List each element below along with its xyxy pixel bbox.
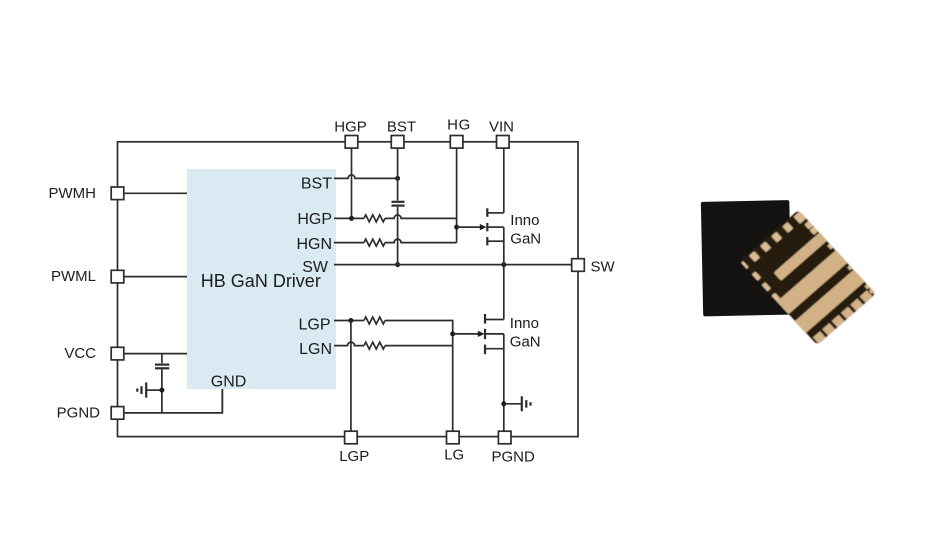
node junction dot LS gate: [450, 331, 455, 336]
wire HGP resistor to HG node (hop over BST cap): [385, 215, 457, 218]
svg-text:VIN: VIN: [489, 119, 514, 136]
outer board frame wire: [118, 142, 579, 437]
wire GND pin of driver: [221, 389, 223, 413]
svg-text:PGND: PGND: [57, 404, 101, 421]
pin PGND terminal (bottom): [498, 431, 511, 444]
pin VCC terminal: [111, 347, 124, 360]
right edge castellations: [804, 221, 874, 296]
left edge pad column: [750, 271, 791, 314]
capacitor C1 (VCC decoupling): [155, 365, 169, 369]
wire SW driver output to SW pin: [334, 264, 572, 266]
wire VCC decoupling branch upper: [161, 354, 163, 364]
wire SW to LS drain: [503, 265, 505, 320]
svg-text:HGP: HGP: [334, 119, 367, 136]
pin LGP terminal (bottom): [345, 431, 358, 444]
svg-text:Inno: Inno: [510, 212, 539, 229]
node junction dot VCC-gnd: [159, 388, 164, 393]
large pad bar 3: [794, 269, 865, 333]
wire LS gate arrow: [453, 333, 479, 335]
svg-text:Inno: Inno: [510, 315, 539, 332]
bottom edge castellations: [813, 287, 876, 344]
svg-text:BST: BST: [301, 175, 332, 192]
pin HGP terminal: [345, 136, 358, 149]
wire VIN pin vertical to HS drain: [503, 148, 505, 213]
svg-text:HB GaN Driver: HB GaN Driver: [201, 271, 321, 291]
svg-text:SW: SW: [591, 259, 616, 276]
pin PWMH terminal: [111, 187, 124, 200]
svg-text:VCC: VCC: [64, 345, 96, 362]
wire power ground branch: [504, 403, 521, 405]
wire BST driver output: [334, 175, 398, 179]
node junction dot HS gate: [454, 225, 459, 230]
svg-text:PWML: PWML: [51, 268, 96, 285]
svg-text:HGN: HGN: [296, 236, 332, 253]
svg-text:HG: HG: [447, 117, 471, 134]
wire LGN resistor to LS gate node: [385, 345, 453, 347]
svg-text:GaN: GaN: [510, 231, 541, 248]
svg-text:LGP: LGP: [339, 448, 369, 465]
wire HG pin vertical: [456, 148, 458, 242]
wire bootstrap cap to SW: [397, 207, 399, 265]
svg-text:GaN: GaN: [510, 334, 541, 351]
svg-text:LGP: LGP: [298, 316, 330, 333]
wire PWMH to driver: [124, 192, 187, 194]
wire VCC to driver: [124, 353, 187, 355]
pin HG terminal: [450, 136, 463, 149]
resistor R4 (LGN gate resistor): [364, 342, 385, 349]
wire LGP pin vertical: [350, 321, 352, 432]
ground symbol (power ground right): [522, 396, 531, 411]
wire LGN driver output lead (hop over LGP wire): [334, 342, 364, 345]
transistor Q1 (Inno GaN high side): [486, 208, 488, 245]
node junction dot LGP: [348, 318, 353, 323]
pin SW terminal: [572, 259, 585, 272]
top edge pad row: [738, 212, 806, 273]
wire HS gate arrow: [457, 226, 481, 228]
pin VIN terminal: [497, 136, 510, 149]
node junction dot BST: [395, 176, 400, 181]
chip photo: back QFN package (black, top view): [701, 200, 792, 316]
wire VCC cap lower: [161, 369, 163, 413]
svg-text:LGN: LGN: [299, 341, 332, 358]
svg-text:BST: BST: [387, 119, 416, 136]
capacitor C2 (bootstrap BST-SW): [392, 202, 405, 206]
wire LGP driver output lead: [334, 320, 364, 322]
pin LG terminal (bottom): [447, 431, 460, 444]
wire HGN driver output lead: [334, 242, 364, 244]
wire BST pin vertical: [397, 148, 399, 200]
node junction dot HGP: [349, 216, 354, 221]
wire HS source to SW: [503, 227, 505, 265]
wire ground branch at VCC: [147, 389, 162, 391]
resistor R3 (LGP gate resistor): [364, 317, 385, 324]
resistor R1 (HGP gate resistor): [364, 215, 385, 222]
node junction dot cap-SW: [395, 262, 400, 267]
wire PGND trace to GND pin: [124, 389, 222, 413]
large pad bar 1: [774, 232, 829, 281]
wire HGP pin vertical: [351, 148, 353, 218]
wire LGP resistor to LS gate node: [385, 321, 453, 432]
transistor Q2 (Inno GaN low side): [484, 314, 486, 354]
svg-text:LG: LG: [444, 447, 464, 464]
svg-text:PWMH: PWMH: [49, 185, 97, 202]
wire PWML to driver: [124, 276, 187, 278]
ground symbol (signal ground left): [137, 383, 146, 398]
HB GaN Driver block (light blue body): [187, 169, 336, 389]
resistor R2 (HGN gate resistor): [364, 239, 385, 246]
pin PGND terminal (left): [111, 407, 124, 420]
node junction dot LS ground branch: [501, 401, 506, 406]
large pad bar 2: [776, 250, 847, 315]
svg-text:HGP: HGP: [297, 211, 332, 228]
node junction dot SW-FET: [501, 262, 506, 267]
pin PWML terminal: [111, 270, 124, 283]
pin BST terminal: [391, 136, 404, 149]
svg-text:PGND: PGND: [492, 448, 536, 465]
wire HGN resistor to HG node (hop over BST cap): [385, 239, 457, 242]
wire LS source down to PGND: [503, 334, 505, 431]
wire HGP driver output lead: [334, 217, 364, 219]
svg-text:GND: GND: [211, 374, 247, 391]
